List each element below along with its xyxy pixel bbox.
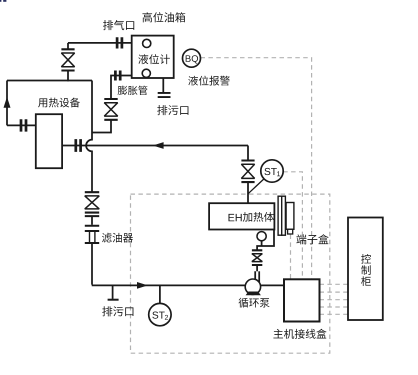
label 膨胀管 [118, 86, 148, 95]
pipe union F2 (heat-user inlet) [21, 119, 26, 131]
gauge stub [261, 241, 263, 246]
wire: heat-user loop left (return riser) [6, 81, 8, 126]
heater flange plates [278, 196, 282, 235]
valve V5 (pump suction) [252, 250, 262, 265]
label 高位油箱 [142, 12, 185, 22]
EH heater body box [209, 203, 274, 229]
pipe union F3 (heat-user outlet) [76, 139, 81, 152]
wire: expansion pipe lower elbow into riser [92, 120, 111, 132]
label EH加热体 [228, 214, 241, 221]
heater terminal end cap [286, 203, 294, 230]
dashed control enclosure [131, 194, 330, 353]
tank sight-glass port (top circle) [143, 39, 151, 47]
circulation pump 循环泵 [245, 271, 261, 295]
wire: riser below filter to bottom main [92, 244, 246, 286]
label 用热设备 [38, 98, 80, 108]
label 液位计 [138, 54, 170, 64]
wire: valve V4 to EH heater [247, 183, 249, 204]
ST1 probe diagonal into pipe [248, 178, 265, 193]
label 控制柜 (vertical) [361, 254, 371, 286]
label 排气口 [103, 20, 134, 30]
pipe union F4 (expansion pipe) [115, 71, 120, 81]
label 滤油器 [102, 233, 133, 243]
wire: into heat-user equipment (left) [7, 124, 36, 126]
control cabinet 控制柜 [348, 218, 383, 321]
heat-user equipment box 用热设备 [36, 114, 62, 168]
dashed signal wire ST1 to junction box [283, 172, 302, 279]
valve V2 (expansion pipe) [104, 99, 117, 120]
wire: down from supply line to valve V4 [247, 146, 249, 161]
wire: heat-user loop top [7, 80, 92, 82]
sensor ST1 [261, 160, 283, 182]
oil filter symbol 滤油器 [85, 231, 99, 243]
wire: vent line (top) [68, 42, 132, 44]
wire: heater outlet elbow [257, 230, 274, 251]
level alarm transmitter BQ [183, 49, 201, 67]
label 主机接线盒 [273, 329, 326, 339]
flow arrow (right) on bottom main [137, 282, 148, 289]
valve V1 (vent line) [61, 49, 74, 70]
wire: stub below valve V1 [67, 71, 69, 81]
flow arrow (up) on return riser [4, 97, 11, 108]
wire: expansion pipe from tank [111, 76, 132, 100]
label 端子盒 [296, 234, 328, 244]
wire: stub to sensor ST2 [159, 285, 161, 303]
tank drain stub with bars [162, 78, 164, 92]
drain stub 排污口 (bottom) [112, 285, 114, 299]
label 排污口 (bottom drain) [102, 306, 133, 316]
pressure gauge circle under heater [257, 232, 266, 241]
decorative corner mark [0, 0, 1, 2]
valve V3 (above oil filter) [85, 192, 99, 212]
main junction box 主机接线盒 [284, 279, 320, 321]
wire: pump outlet to junction box [261, 284, 284, 286]
flow arrow (left) on main supply line [153, 142, 164, 149]
wire: stub above valve V1 [67, 43, 69, 49]
dashed signal wire BQ to junction box [201, 58, 312, 280]
wire: cold riser from loop down to filter chain (with hop over supply line) [86, 81, 92, 192]
valve V4 (above EH heater) [241, 161, 254, 183]
wire: valve V5 to pump [256, 265, 258, 271]
label 排污口 (tank drain) [157, 105, 188, 115]
sensor ST2 [149, 303, 171, 325]
dashed multi-wire bundle junction box to control cabinet [320, 283, 349, 285]
label 循环泵 [239, 298, 270, 308]
tank sight-glass port (bottom circle) [142, 69, 150, 77]
terminal box foot [288, 229, 293, 234]
wire: main supply line (heat-user to heater riser) [62, 145, 248, 147]
high-level oil tank 高位油箱 [132, 36, 174, 78]
dashed signal wire terminal-box foot to junction box [290, 235, 292, 280]
label 液位报警 [188, 76, 230, 86]
strainer spool piece (I) [85, 216, 99, 226]
pipe union F1 (vent line) [117, 37, 122, 48]
